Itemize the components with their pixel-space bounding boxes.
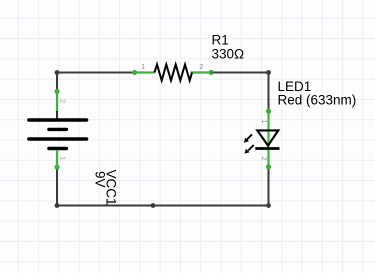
junction dot top-right: [266, 70, 271, 75]
svg-text:1: 1: [58, 156, 67, 160]
svg-text:R1: R1: [212, 32, 229, 47]
svg-text:Red (633nm): Red (633nm): [278, 92, 357, 107]
wire: top horizontal right part: [210, 72, 268, 74]
battery VCC1 pin 1 (bottom, green): [56, 150, 58, 168]
svg-text:1: 1: [141, 62, 145, 71]
LED1 emission arrow 1: [244, 134, 252, 142]
wire: left vertical lower (battery to bottom): [56, 166, 58, 205]
wire: top horizontal left part: [57, 72, 136, 74]
wire: right vertical lower (LED to bottom): [268, 166, 270, 206]
resistor R1 body (zigzag): [155, 65, 193, 81]
LED1 cathode bar: [255, 147, 279, 150]
svg-text:2: 2: [260, 157, 269, 161]
battery plate short 2: [49, 147, 67, 150]
junction dot bottom-right: [266, 203, 271, 208]
junction dot bottom-middle: [151, 203, 156, 208]
LED1 pin 2 (bottom, green): [267, 149, 269, 169]
wire: bottom horizontal: [57, 205, 269, 207]
LED1 pin 1 (top, green, runs through triangle): [267, 110, 269, 148]
junction dot top-left: [55, 70, 60, 75]
wire: left vertical upper (to battery): [56, 72, 58, 93]
wire: right vertical upper (to LED): [268, 72, 270, 113]
battery plate short 1: [49, 128, 67, 131]
LED1 emission arrow 2: [245, 145, 254, 154]
svg-text:330Ω: 330Ω: [212, 47, 245, 62]
battery plate long 2: [29, 137, 87, 140]
battery VCC1 pin 2 (top, green): [56, 90, 58, 112]
svg-text:1: 1: [260, 120, 269, 124]
battery plate long 1: [29, 118, 87, 121]
svg-text:2: 2: [199, 62, 203, 71]
svg-text:2: 2: [58, 99, 67, 103]
resistor R1 pin 1 (green): [134, 71, 155, 73]
svg-text:9V: 9V: [93, 171, 108, 188]
LED1 triangle (anode): [257, 130, 278, 145]
resistor R1 pin 2 (green): [191, 71, 212, 73]
junction dot bottom-left: [55, 203, 60, 208]
battery top stub: [56, 111, 58, 119]
